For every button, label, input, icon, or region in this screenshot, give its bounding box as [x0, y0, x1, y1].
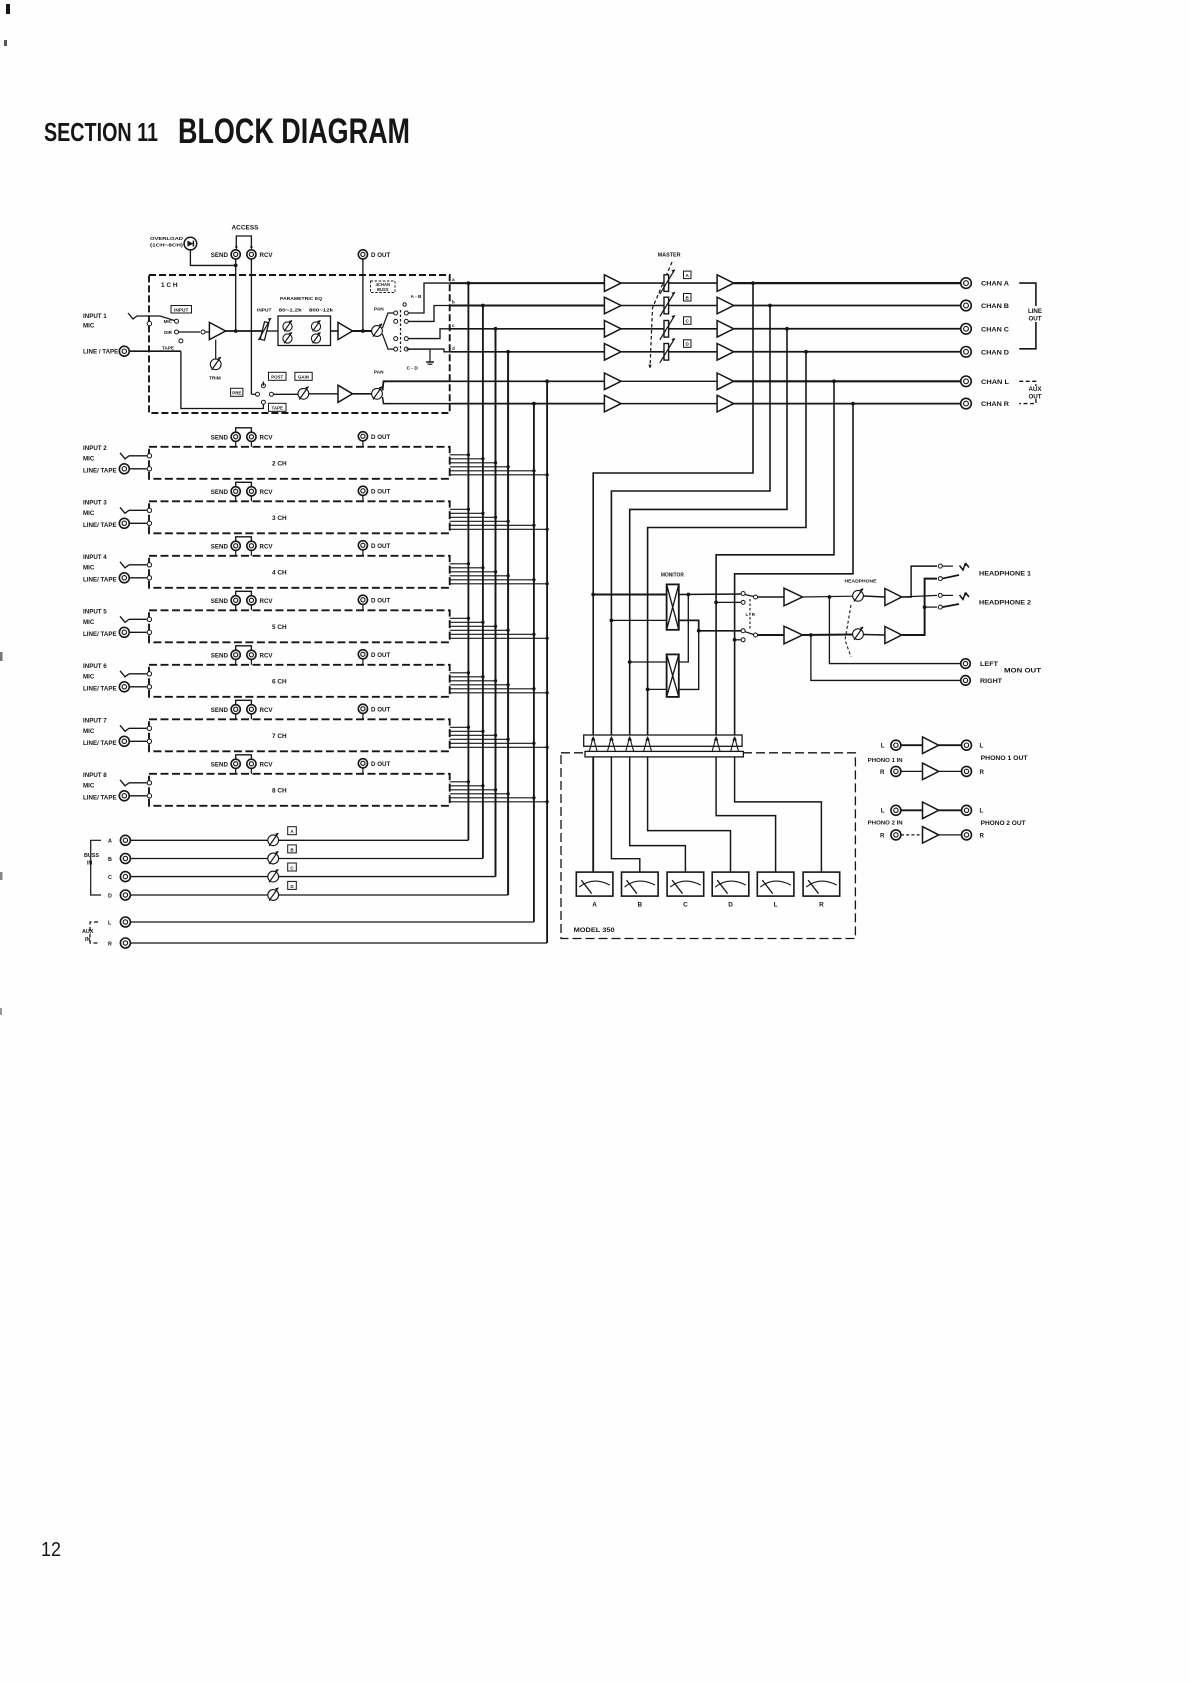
- svg-text:POST: POST: [271, 375, 283, 380]
- jack CHAN L out: [961, 376, 972, 387]
- wire aux L exit: [383, 381, 451, 390]
- svg-text:MIC: MIC: [83, 323, 95, 330]
- fader MASTER A: [664, 275, 669, 292]
- connector pin R: [731, 737, 735, 751]
- svg-text:OUT: OUT: [1028, 394, 1041, 401]
- wire buss in D: [131, 894, 268, 896]
- wire assign c: [408, 329, 450, 339]
- svg-text:ACCESS: ACCESS: [232, 225, 259, 232]
- wire master A to output jack: [734, 282, 962, 284]
- wire row A from channel: [450, 282, 604, 284]
- MODEL 350 dashed box: [561, 753, 855, 939]
- op-amp master D first: [604, 344, 621, 361]
- jack SEND CH5: [231, 596, 240, 605]
- switch monitor/R select: [741, 629, 745, 633]
- svg-text:D OUT: D OUT: [371, 252, 390, 259]
- svg-text:HEADPHONE 1: HEADPHONE 1: [979, 571, 1031, 578]
- wire to mon out left: [829, 597, 960, 664]
- pot GAIN CH1: [298, 388, 309, 399]
- send/rcv bracket CH7: [236, 700, 252, 704]
- meter B: [622, 872, 659, 896]
- buss assign switch CH1: [382, 313, 393, 328]
- drop wire D to meter strip: [648, 352, 806, 735]
- wire aux R exit: [383, 397, 451, 404]
- wire buss in A: [131, 839, 268, 841]
- wire buss C to bus: [279, 876, 496, 878]
- monitor tap C: [630, 661, 667, 663]
- svg-text:6 CH: 6 CH: [272, 678, 287, 685]
- svg-text:5 CH: 5 CH: [272, 624, 287, 631]
- jack LINE/TAPE CH5: [119, 627, 129, 637]
- svg-text:D OUT: D OUT: [371, 598, 390, 605]
- svg-text:L / R: L / R: [746, 612, 756, 617]
- wire to master fader D: [621, 351, 664, 353]
- jack D OUT CH2: [358, 432, 367, 441]
- connector pin B: [607, 737, 611, 751]
- wire row C from channel: [450, 328, 604, 330]
- wire fader to amp A: [669, 282, 718, 284]
- svg-text:RCV: RCV: [260, 252, 274, 259]
- svg-text:IN: IN: [87, 861, 92, 867]
- jack LINE/TAPE CH8: [119, 791, 129, 801]
- svg-text:SEND: SEND: [211, 544, 229, 551]
- jack CHAN R out: [961, 398, 972, 409]
- meter C: [667, 872, 704, 896]
- meter feed B: [611, 757, 639, 872]
- wire headphone2 tip: [902, 595, 937, 597]
- meter feed R: [735, 757, 822, 872]
- svg-text:SEND: SEND: [211, 598, 229, 605]
- svg-text:PRE: PRE: [232, 391, 241, 396]
- AUX IN bracket: [90, 922, 98, 943]
- svg-text:BLOCK DIAGRAM: BLOCK DIAGRAM: [178, 112, 410, 151]
- wire row R from channel: [450, 403, 604, 405]
- svg-text:12: 12: [41, 1539, 61, 1561]
- svg-text:(1CH~8CH): (1CH~8CH): [150, 243, 184, 249]
- drop wire R to meter strip: [735, 404, 853, 735]
- svg-text:D OUT: D OUT: [371, 761, 390, 768]
- svg-text:INPUT 5: INPUT 5: [83, 608, 107, 615]
- boxed letter master B: [684, 294, 692, 302]
- drop wire L to meter strip: [716, 381, 834, 735]
- op-amp master L second: [717, 373, 734, 390]
- wire master R to output jack: [734, 403, 962, 405]
- wire between master amps L: [621, 380, 717, 382]
- op-amp master B second: [717, 297, 734, 314]
- wire hpamp R to pot: [803, 634, 853, 637]
- svg-text:INPUT 6: INPUT 6: [83, 663, 107, 670]
- wire hp pot L to amp: [863, 596, 885, 597]
- connector pin C: [626, 737, 630, 751]
- pot BUSS D: [268, 890, 279, 901]
- svg-text:PHONO 2 IN: PHONO 2 IN: [868, 820, 903, 826]
- meter D: [712, 872, 749, 896]
- op-amp master L first: [604, 373, 621, 390]
- svg-text:MODEL 350: MODEL 350: [574, 927, 615, 934]
- svg-text:SECTION 11: SECTION 11: [44, 117, 158, 147]
- svg-text:TRIM: TRIM: [209, 376, 221, 382]
- jack MON OUT RIGHT: [961, 676, 971, 686]
- wire master D to output jack: [734, 351, 962, 353]
- svg-text:L: L: [980, 743, 984, 750]
- svg-text:GAIN: GAIN: [298, 375, 309, 380]
- meter feed A: [592, 757, 594, 872]
- send/rcv bracket CH5: [236, 591, 252, 595]
- svg-text:INPUT 8: INPUT 8: [83, 772, 107, 779]
- svg-text:RCV: RCV: [260, 489, 274, 496]
- channel 1 dashed box: [149, 275, 450, 413]
- svg-text:INPUT: INPUT: [174, 307, 188, 313]
- svg-text:A: A: [108, 839, 112, 845]
- wire aux in R: [131, 942, 547, 944]
- jack LINE/TAPE CH3: [119, 518, 129, 528]
- wire to mon out right: [811, 635, 961, 680]
- svg-text:CHAN C: CHAN C: [981, 326, 1009, 333]
- mic input hook: [128, 313, 137, 319]
- jack D OUT CH7: [358, 704, 367, 713]
- op-amp U3 aux amp: [338, 385, 353, 402]
- wire monitor1 out lower: [679, 620, 741, 630]
- jack RCV CH3: [247, 487, 256, 496]
- master gang dashed line: [650, 262, 672, 368]
- svg-text:INPUT: INPUT: [257, 308, 271, 314]
- svg-text:AUX: AUX: [1028, 386, 1042, 393]
- svg-text:MASTER: MASTER: [658, 253, 681, 259]
- wire assign d: [408, 349, 450, 352]
- buss line B vertical: [482, 306, 484, 859]
- svg-text:PHONO 1 IN: PHONO 1 IN: [868, 758, 903, 764]
- svg-text:D OUT: D OUT: [371, 543, 390, 550]
- boxed label INPUT: [171, 306, 192, 314]
- svg-text:LINE/ TAPE: LINE/ TAPE: [83, 522, 117, 529]
- buss line D vertical: [507, 352, 509, 895]
- buss line C vertical: [495, 329, 497, 877]
- svg-text:MONITOR: MONITOR: [661, 573, 684, 579]
- svg-text:800~12k: 800~12k: [309, 308, 334, 313]
- monitor tap A: [593, 594, 666, 596]
- fader EQ input: [260, 322, 269, 341]
- op-amp U1 mic amp: [209, 322, 225, 339]
- wire buss B to bus: [279, 858, 483, 860]
- wire LED to send line: [190, 250, 235, 266]
- svg-text:8 CH: 8 CH: [272, 787, 287, 794]
- svg-text:R: R: [980, 832, 985, 839]
- svg-text:OVERLOAD: OVERLOAD: [150, 236, 184, 242]
- svg-text:SEND: SEND: [211, 435, 229, 442]
- svg-text:INPUT 3: INPUT 3: [83, 499, 107, 506]
- headphone 1 plug: [960, 563, 966, 570]
- connector pin L: [712, 737, 716, 751]
- svg-text:a: a: [452, 277, 455, 282]
- jack LINE/TAPE CH7: [119, 736, 129, 746]
- svg-text:MON OUT: MON OUT: [1004, 668, 1041, 675]
- boxed letter A: [288, 827, 297, 835]
- wire monitor2 out upper: [679, 595, 689, 663]
- switch monitor/L select: [741, 592, 745, 596]
- send/rcv bracket CH8: [236, 755, 252, 759]
- op-amp master A second: [717, 275, 734, 292]
- mic hook CH6: [120, 671, 129, 677]
- wire switch to hp amp R: [758, 634, 785, 636]
- jack RCV CH5: [247, 596, 256, 605]
- svg-text:SEND: SEND: [211, 489, 229, 496]
- jack RCV CH6: [247, 650, 256, 659]
- svg-text:MIC: MIC: [83, 564, 95, 571]
- op-amp headphone L 1: [784, 588, 803, 606]
- svg-text:LINE/ TAPE: LINE/ TAPE: [83, 740, 117, 747]
- wire amp1 out: [226, 330, 262, 332]
- jack SEND CH8: [231, 759, 240, 768]
- svg-text:80~1.2k: 80~1.2k: [279, 308, 303, 313]
- pot BUSS C: [268, 871, 279, 882]
- boxed letter D: [288, 881, 297, 889]
- svg-text:SEND: SEND: [211, 653, 229, 660]
- svg-text:SEND: SEND: [211, 252, 229, 259]
- jack LINE/TAPE CH6: [119, 682, 129, 692]
- post/pre switch CH1: [231, 388, 243, 396]
- svg-text:BUSS: BUSS: [84, 853, 99, 859]
- svg-text:c: c: [452, 323, 455, 328]
- svg-text:RCV: RCV: [260, 544, 274, 551]
- svg-text:LINE: LINE: [1028, 308, 1042, 315]
- meter A: [576, 872, 613, 896]
- svg-text:B: B: [637, 902, 642, 909]
- svg-text:4 CH: 4 CH: [272, 569, 287, 576]
- op-amp master D second: [717, 344, 734, 361]
- access bracket: [236, 236, 251, 248]
- monitor fader 2: [667, 654, 679, 697]
- svg-text:LINE/ TAPE: LINE/ TAPE: [83, 467, 117, 474]
- meter L: [757, 872, 794, 896]
- boxed letter master D: [684, 340, 692, 348]
- pot BUSS B: [268, 853, 279, 864]
- pot BUSS A: [268, 835, 279, 846]
- LED overload D1: [184, 237, 197, 250]
- svg-text:3 CH: 3 CH: [272, 515, 287, 522]
- wire buss A to bus: [279, 839, 469, 841]
- svg-text:R: R: [980, 769, 985, 776]
- wire row D from channel: [450, 351, 604, 353]
- op-amp master R second: [717, 395, 734, 412]
- svg-text:INPUT 1: INPUT 1: [83, 313, 107, 320]
- wire monitor1 out L: [679, 593, 743, 596]
- svg-text:BUSS: BUSS: [377, 287, 389, 292]
- svg-text:7 CH: 7 CH: [272, 733, 287, 740]
- jack SEND CH3: [231, 487, 240, 496]
- monitor tap L: [716, 601, 741, 603]
- jack RCV CH2: [247, 432, 256, 441]
- op-amp headphone R 2: [885, 627, 902, 644]
- wire buss in B: [131, 858, 268, 860]
- monitor fader 1: [667, 584, 679, 629]
- jack D OUT CH6: [358, 650, 367, 659]
- scan artifact top-left: [6, 4, 10, 14]
- svg-text:HEADPHONE 2: HEADPHONE 2: [979, 600, 1031, 607]
- op-amp master B first: [604, 297, 621, 314]
- svg-text:CHAN A: CHAN A: [981, 281, 1009, 288]
- svg-text:CHAN L: CHAN L: [981, 379, 1009, 386]
- fader MASTER B: [664, 297, 669, 314]
- svg-text:TAPE: TAPE: [272, 406, 283, 411]
- wire master C to output jack: [734, 328, 962, 330]
- wire monitor2 out lower: [679, 631, 699, 690]
- jack RCV CH1: [247, 250, 256, 259]
- svg-text:L: L: [881, 808, 885, 815]
- svg-text:RIGHT: RIGHT: [980, 678, 1002, 685]
- svg-text:L: L: [980, 808, 984, 815]
- channel 6 box: [149, 665, 450, 697]
- svg-text:D: D: [108, 893, 112, 899]
- svg-text:RCV: RCV: [260, 762, 274, 769]
- meter feed L: [716, 757, 776, 872]
- fan-out wires CH5: [450, 617, 469, 619]
- channel 2 box: [149, 447, 450, 479]
- fader MASTER C: [664, 321, 669, 338]
- svg-text:MIC: MIC: [83, 782, 95, 789]
- svg-text:C - D: C - D: [407, 366, 419, 372]
- wire master B to output jack: [734, 305, 962, 307]
- jack SEND CH7: [231, 705, 240, 714]
- svg-text:CHAN R: CHAN R: [981, 401, 1009, 408]
- wire eq to amp2: [267, 330, 278, 332]
- svg-text:PHONO 2 OUT: PHONO 2 OUT: [981, 820, 1026, 827]
- fan-out wires CH3: [450, 508, 469, 510]
- fan-out wires CH2: [450, 454, 469, 456]
- jack LINE/TAPE CH2: [119, 464, 129, 474]
- svg-text:LINE/ TAPE: LINE/ TAPE: [83, 631, 117, 638]
- pot PAN aux CH1: [372, 388, 383, 399]
- channel 7 box: [149, 719, 450, 751]
- buss line A vertical: [467, 283, 469, 840]
- pot HEADPHONE L: [853, 590, 864, 601]
- wire assign b: [408, 306, 450, 322]
- wire master L to output jack: [734, 380, 962, 382]
- fader MASTER D: [664, 344, 669, 361]
- fan-out wires CH4: [450, 563, 469, 565]
- wire amp2 out to pan: [353, 330, 372, 332]
- channel 5 box: [149, 610, 450, 642]
- op-amp headphone R 1: [784, 626, 803, 644]
- mic hook CH7: [120, 725, 129, 731]
- svg-text:R: R: [880, 769, 885, 776]
- svg-text:LINE/ TAPE: LINE/ TAPE: [83, 576, 117, 583]
- svg-text:TAPE: TAPE: [162, 346, 174, 351]
- svg-text:RCV: RCV: [260, 435, 274, 442]
- wire to headphone1 jack: [902, 566, 937, 597]
- jack LINE/TAPE CH4: [119, 573, 129, 583]
- meter feed D: [648, 757, 731, 872]
- svg-text:IN: IN: [85, 937, 90, 943]
- input selector switch CH1: [175, 319, 179, 323]
- wire tape feed: [181, 351, 264, 408]
- svg-text:PAN: PAN: [374, 307, 384, 313]
- drop wire A to meter strip: [593, 283, 753, 735]
- wire switch to hp amp L: [758, 596, 785, 598]
- boxed letter master A: [684, 271, 692, 279]
- svg-text:RCV: RCV: [260, 653, 274, 660]
- wire fader to amp B: [669, 305, 718, 307]
- headphone pot gang dashed: [845, 605, 851, 657]
- op-amp master R first: [604, 395, 621, 412]
- send/rcv bracket CH3: [236, 482, 252, 486]
- jack LINE/TAPE CH1: [119, 346, 129, 356]
- jack CHAN A out: [961, 278, 972, 289]
- svg-text:PAN: PAN: [374, 370, 384, 376]
- wire between master amps R: [621, 403, 717, 405]
- svg-text:C: C: [683, 902, 688, 909]
- wire hp R to jacks: [902, 579, 937, 635]
- jack D OUT CH3: [358, 486, 367, 495]
- wire send tap: [235, 259, 237, 331]
- mic hook CH2: [120, 453, 129, 459]
- op-amp headphone L 2: [885, 589, 902, 606]
- send/rcv bracket CH4: [236, 537, 252, 541]
- wire buss in C: [131, 876, 268, 878]
- connector pin A: [589, 737, 593, 751]
- pot PAN CH1: [372, 326, 383, 337]
- svg-text:d: d: [452, 346, 455, 351]
- svg-text:RCV: RCV: [260, 707, 274, 714]
- wire pre-fader chain: [273, 393, 298, 395]
- jack CHAN B out: [961, 300, 972, 311]
- svg-text:R: R: [819, 902, 824, 909]
- svg-text:MIC: MIC: [83, 455, 95, 462]
- meter feed C: [630, 757, 686, 872]
- svg-text:L: L: [774, 902, 778, 909]
- BUSS IN bracket: [91, 840, 101, 895]
- jack SEND CH2: [231, 432, 240, 441]
- mic hook CH4: [120, 562, 129, 568]
- boxed letter master C: [684, 317, 692, 325]
- svg-text:MIC: MIC: [83, 619, 95, 626]
- jack CHAN D out: [961, 347, 972, 358]
- mic hook CH5: [120, 616, 129, 622]
- connector strip lower: [585, 751, 743, 757]
- svg-text:PHONO 1 OUT: PHONO 1 OUT: [981, 755, 1028, 762]
- boxed letter C: [288, 863, 297, 871]
- svg-text:LEFT: LEFT: [980, 661, 998, 668]
- LINE OUT bracket: [1019, 283, 1036, 306]
- svg-text:HEADPHONE: HEADPHONE: [845, 579, 878, 585]
- AUX OUT bracket: [1019, 381, 1036, 386]
- headphone 2 contacts: [938, 593, 942, 597]
- buss line R vertical: [533, 404, 535, 922]
- wire hpamp L to pot: [803, 595, 853, 598]
- pot TRIM: [210, 359, 221, 370]
- drop wire B to meter strip: [611, 306, 770, 736]
- wire row L from channel: [450, 380, 604, 382]
- svg-text:SEND: SEND: [211, 762, 229, 769]
- jack SEND CH6: [231, 650, 240, 659]
- jack RCV CH8: [247, 759, 256, 768]
- jack MON OUT LEFT: [961, 659, 971, 669]
- wire fader to amp C: [669, 328, 718, 330]
- op-amp master C second: [717, 321, 734, 338]
- fan-out wires CH8: [450, 781, 469, 783]
- jack SEND CH1: [231, 250, 240, 259]
- svg-text:D OUT: D OUT: [371, 489, 390, 496]
- svg-text:AUX: AUX: [82, 929, 94, 935]
- monitor tap R: [735, 639, 742, 641]
- svg-text:MIC: MIC: [83, 673, 95, 680]
- scan artifact left edge marks: [0, 652, 3, 661]
- wire aux in L: [131, 921, 534, 923]
- svg-text:INPUT 4: INPUT 4: [83, 554, 107, 561]
- jack D OUT CH8: [358, 759, 367, 768]
- svg-text:INPUT 7: INPUT 7: [83, 717, 107, 724]
- channel 8 box: [149, 774, 450, 806]
- svg-text:LINE/ TAPE: LINE/ TAPE: [83, 685, 117, 692]
